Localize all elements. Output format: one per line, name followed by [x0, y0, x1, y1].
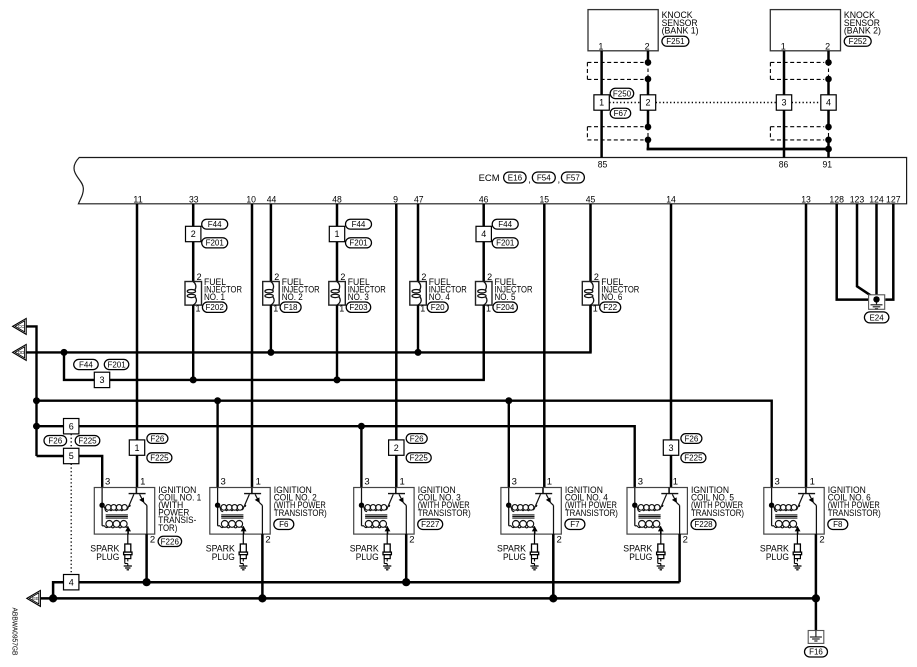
svg-text:2: 2	[340, 272, 345, 282]
svg-text:3: 3	[512, 477, 517, 488]
wire: knock sensor bank2 pin 2 (shield) to ECM pin 91	[827, 51, 830, 158]
junction: injector no.3 on supply row	[334, 376, 341, 383]
wire: row C to coil 4 pin 3	[508, 401, 510, 488]
svg-text:E16: E16	[508, 173, 523, 182]
label: ECM	[479, 173, 500, 184]
connector F44	[202, 219, 228, 229]
spark plug no.3	[383, 534, 391, 570]
wire: ignition coil no.5 pin 2 to ground bus	[678, 534, 681, 582]
ECM module box (torn left edge)	[74, 158, 907, 204]
connector pin square 5 (F26/F225)	[64, 448, 79, 463]
shield dashed segment	[828, 62, 830, 79]
wire: fuel injector no.6 return to supply row	[589, 305, 591, 352]
svg-text:TRANSISTOR): TRANSISTOR)	[828, 508, 881, 519]
svg-text:3: 3	[99, 375, 104, 385]
svg-text:PLUG: PLUG	[212, 552, 235, 563]
connector F67	[610, 108, 631, 118]
svg-text:3: 3	[105, 477, 110, 488]
svg-text:123: 123	[850, 194, 865, 205]
wire: ECM to ignition coil no.5 pin 1	[670, 204, 673, 488]
label: IGNITION COIL NO. 4 (WITH POWER TRANSISTOR)	[565, 485, 618, 519]
ECM pin 85 label	[598, 159, 608, 170]
svg-text:DD: DD	[18, 350, 25, 355]
connector F250	[610, 88, 634, 98]
connector F201	[492, 238, 518, 248]
junction: CC vertical to row D	[33, 423, 40, 430]
junction: coil 2 pin 3 on row C	[214, 397, 221, 404]
junction: coil no.1 pin 2 on bus	[143, 578, 151, 586]
svg-text:F203: F203	[349, 303, 368, 312]
wire: row B injector supply (to injectors 1,3,5)	[110, 305, 484, 380]
svg-text:4: 4	[69, 577, 74, 587]
wire: knock sensor bank1 pin 1 to ECM pin 85	[600, 51, 603, 158]
wire: ECM to ignition coil no.4 pin 1	[543, 204, 546, 488]
svg-text:2: 2	[594, 272, 599, 282]
ignition coil no.1 with power transistor (F226)	[94, 477, 155, 546]
junction: injector no.1 on supply row	[190, 376, 197, 383]
shield dashed segment	[647, 127, 649, 140]
label: FUEL INJECTOR NO. 1	[204, 277, 242, 303]
wire: row D to coil 3 pin 3	[360, 426, 362, 487]
dotted connector link 6-5-4	[70, 434, 72, 575]
ECM pin 127 label	[886, 194, 901, 205]
svg-text:TRANSISTOR): TRANSISTOR)	[565, 508, 618, 519]
spark plug no.2	[239, 534, 247, 570]
connector F57	[561, 172, 584, 183]
svg-text:1: 1	[140, 477, 145, 488]
connector pin square 1 (F44/F201)	[329, 226, 344, 241]
svg-text:F225: F225	[150, 454, 169, 463]
wire: fuel injector no.4 return to supply row	[417, 305, 419, 352]
svg-text:2: 2	[150, 534, 155, 545]
svg-text:F6: F6	[279, 520, 289, 529]
svg-text:F26: F26	[48, 437, 62, 446]
svg-text:2: 2	[191, 229, 196, 239]
wire: ECM to ignition coil no.6 pin 1	[805, 204, 808, 488]
svg-text:TRANSISTOR): TRANSISTOR)	[418, 508, 471, 519]
wire: ground bus drop to F16	[815, 598, 818, 630]
ECM pin 46 label	[479, 194, 489, 205]
comma	[528, 175, 531, 186]
junction: bus tie	[49, 594, 57, 602]
junction: coil no.3 pin 2 on bus	[402, 578, 410, 586]
junction: coil no.4 pin 2 on bus	[549, 594, 557, 602]
fuel injector no.6 (F22)	[582, 272, 599, 313]
svg-text:F26: F26	[410, 434, 424, 443]
svg-text:F22: F22	[603, 303, 617, 312]
svg-text:PLUG: PLUG	[356, 552, 379, 563]
comma	[558, 175, 561, 186]
fuel injector no.5 (F204)	[476, 272, 493, 313]
svg-text:PLUG: PLUG	[766, 552, 789, 563]
ground E24 symbol	[869, 295, 885, 310]
svg-text:3: 3	[364, 477, 369, 488]
svg-text:ECM: ECM	[479, 173, 500, 184]
ECM pin 14 label	[666, 194, 676, 205]
wire: ignition coil no.4 pin 2 to ground bus	[552, 534, 555, 598]
shield dashed segment	[647, 62, 649, 79]
svg-text:F26: F26	[151, 434, 165, 443]
svg-text:F44: F44	[352, 220, 366, 229]
svg-text:F201: F201	[206, 239, 225, 248]
ECM pin 13 label	[801, 194, 811, 205]
svg-text:F202: F202	[206, 303, 225, 312]
label: IGNITION COIL NO. 6 (WITH POWER TRANSISTOR)	[828, 485, 881, 519]
svg-text:(BANK 2): (BANK 2)	[844, 25, 881, 36]
ignition coil no.5 with power transistor (F228)	[627, 477, 688, 546]
ECM pin 124 label	[869, 194, 884, 205]
junction: coil 3 pin 3 on row D	[358, 423, 365, 430]
label: IGNITION COIL NO. 5 (WITH POWER TRANSISTOR)	[691, 485, 744, 519]
ECM pin 9 label	[393, 194, 398, 205]
svg-text:F44: F44	[498, 220, 512, 229]
wire: lower ground bus (EE to ground F16)	[41, 597, 816, 600]
wire: knock sensor bank2 pin 1 to ECM pin 86	[783, 51, 786, 158]
connector F26	[406, 434, 427, 444]
page connector arrow EE (ground bus)	[27, 590, 41, 606]
connector pin square 2 (F44/F201)	[186, 226, 201, 241]
svg-text:128: 128	[829, 194, 844, 205]
svg-text:1: 1	[486, 303, 491, 313]
connector F7	[565, 519, 585, 529]
junction: ground node E24	[873, 296, 879, 302]
svg-text:2: 2	[197, 272, 202, 282]
connector pin square 6 (F26/F225)	[64, 419, 79, 434]
wire: ECM to fuel injector no.4	[417, 204, 420, 282]
ECM pin 45 label	[586, 194, 596, 205]
label: FUEL INJECTOR NO. 3	[348, 277, 386, 303]
svg-text:F201: F201	[107, 360, 126, 369]
shield dashed box bank2 upper	[770, 62, 824, 79]
connector F226	[158, 536, 182, 546]
svg-text:F16: F16	[809, 648, 823, 657]
wire: row E coil supply (coil 1 pin 3)	[37, 456, 103, 488]
svg-text:CC: CC	[18, 324, 25, 329]
svg-text:F67: F67	[614, 109, 628, 118]
svg-text:127: 127	[886, 194, 901, 205]
connector pin square 1 (F26/F225)	[129, 440, 144, 455]
ECM pin 10 label	[246, 194, 256, 205]
svg-text:F201: F201	[349, 239, 368, 248]
ECM pin 48 label	[332, 194, 342, 205]
svg-text:F44: F44	[79, 360, 93, 369]
svg-text:33: 33	[189, 194, 199, 205]
label: FUEL INJECTOR NO. 5	[495, 277, 533, 303]
svg-text:1: 1	[339, 303, 344, 313]
svg-text:1: 1	[673, 477, 678, 488]
connector F202	[202, 302, 227, 312]
junction: injector no.4 on supply row	[415, 349, 422, 356]
svg-text:2: 2	[487, 272, 492, 282]
svg-text:F204: F204	[496, 303, 515, 312]
connector F44	[74, 359, 99, 369]
svg-text:F250: F250	[613, 89, 632, 98]
ECM pin 11 label	[133, 194, 143, 205]
svg-text:PLUG: PLUG	[96, 552, 119, 563]
svg-text:TOR): TOR)	[158, 523, 177, 534]
ECM pin 86 label	[779, 159, 789, 170]
connector pin square 3 (F250/F67)	[776, 95, 791, 110]
svg-text:,: ,	[558, 175, 561, 186]
wire: ignition coil no.2 pin 2 to ground bus	[261, 534, 264, 598]
svg-text:1: 1	[781, 42, 786, 52]
shield junction dots bank1	[645, 59, 652, 143]
shield dashed box bank2 lower	[770, 127, 824, 140]
wire: row C to coil 2 pin 3	[216, 401, 218, 488]
svg-text:F57: F57	[566, 173, 580, 182]
svg-text:F227: F227	[421, 520, 440, 529]
label: FUEL INJECTOR NO. 4	[429, 277, 467, 303]
svg-text:2: 2	[409, 534, 414, 545]
shield dashed segment	[828, 127, 830, 140]
svg-text:45: 45	[586, 194, 596, 205]
svg-text:1: 1	[134, 443, 139, 453]
shield dashed box bank1 lower	[587, 127, 643, 140]
svg-text:15: 15	[540, 194, 550, 205]
ground F16 symbol	[808, 631, 824, 644]
spark plug no.1	[124, 534, 132, 570]
wire: ECM to ignition coil no.2 pin 1	[251, 204, 254, 488]
svg-text:2: 2	[645, 98, 650, 108]
wire: upper ground bus (through connector square 4)	[53, 582, 680, 598]
connector pin square 4 (F44/F201)	[476, 226, 491, 241]
wire: ignition coil no.6 pin 2 to ground bus	[815, 534, 818, 598]
knock sensor (BANK 1) box	[588, 10, 658, 52]
connector F225	[75, 436, 100, 446]
connector pin square 4 (F250/F67)	[821, 95, 836, 110]
svg-text:48: 48	[332, 194, 342, 205]
svg-text:E24: E24	[869, 313, 884, 322]
svg-text:46: 46	[479, 194, 489, 205]
wire: ECM to fuel injector no.5	[482, 204, 485, 282]
connector F204	[493, 302, 518, 312]
label: SPARK PLUG	[760, 544, 790, 563]
svg-text:1: 1	[400, 477, 405, 488]
label: FUEL INJECTOR NO. 6	[601, 277, 639, 303]
junction: coil no.2 pin 2 on bus	[258, 594, 266, 602]
svg-text:2: 2	[394, 443, 399, 453]
connector F201	[346, 238, 372, 248]
fuel injector no.4 (F20)	[410, 272, 427, 313]
svg-text:11: 11	[133, 194, 143, 205]
label: SPARK PLUG	[350, 544, 380, 563]
svg-text:F8: F8	[833, 520, 843, 529]
svg-text:14: 14	[666, 194, 676, 205]
connector F228	[691, 519, 716, 529]
connector F203	[346, 302, 371, 312]
dotted connector link line	[609, 102, 821, 104]
svg-text:1: 1	[593, 303, 598, 313]
svg-text:TRANSISTOR): TRANSISTOR)	[274, 508, 327, 519]
ECM pin 91 label	[823, 159, 833, 170]
connector F225	[681, 453, 706, 463]
junction: coil 4 pin 3 on row C	[505, 397, 512, 404]
connector F26	[147, 434, 168, 444]
svg-text:3: 3	[775, 477, 780, 488]
spark plug no.6	[793, 534, 801, 570]
svg-text:91: 91	[823, 159, 833, 170]
shield dashed box bank1 upper	[587, 62, 643, 79]
wire: ECM pin 127 to ground E24	[885, 204, 893, 300]
svg-text:F251: F251	[666, 37, 685, 46]
junction: coil no.6 pin 2 on bus	[812, 594, 820, 602]
connector F225	[147, 453, 172, 463]
svg-text:F252: F252	[849, 37, 868, 46]
svg-text:,: ,	[528, 175, 531, 186]
knock sensor (BANK 2) box	[770, 10, 840, 52]
wire: ECM to fuel injector no.6	[589, 204, 592, 282]
junction: injector no.2 on supply row	[267, 349, 274, 356]
svg-text:1: 1	[599, 98, 604, 108]
connector E16	[504, 172, 526, 183]
connector F201	[104, 359, 129, 369]
svg-text:F225: F225	[410, 454, 429, 463]
connector pin square 4 (F26/F225)	[64, 575, 79, 590]
wire: branch row A to row B via connector 3	[64, 352, 94, 380]
svg-text:F44: F44	[208, 220, 222, 229]
wire: fuel injector no.1 return to supply row	[192, 305, 194, 380]
ECM pin 44 label	[267, 194, 277, 205]
wire: ignition coil no.1 pin 2 to ground bus	[145, 534, 148, 582]
connector pin square 2 (F26/F225)	[389, 440, 404, 455]
connector F225	[406, 453, 431, 463]
connector F26	[681, 434, 702, 444]
svg-text:F26: F26	[685, 434, 699, 443]
wire: arrow CC feed to coil supply rows	[26, 326, 36, 456]
svg-text:4: 4	[826, 98, 831, 108]
connector F8	[828, 519, 848, 529]
label: KNOCK SENSOR (BANK 1)	[662, 10, 699, 36]
svg-text:3: 3	[781, 98, 786, 108]
junction: shields common at pin 91	[825, 146, 832, 153]
wire: ECM pin 128 to ground E24	[837, 204, 868, 300]
connector F252	[844, 36, 871, 46]
ECM pin 128 label	[829, 194, 844, 205]
svg-text:6: 6	[69, 421, 74, 431]
svg-text:4: 4	[481, 229, 486, 239]
fuel injector no.3 (F203)	[329, 272, 346, 313]
svg-text:124: 124	[869, 194, 884, 205]
label: SPARK PLUG	[90, 544, 120, 563]
svg-text:2: 2	[819, 534, 824, 545]
svg-text:ABBWA0957GB: ABBWA0957GB	[10, 608, 19, 656]
fuel injector no.2 (F18)	[263, 272, 280, 313]
svg-text:PLUG: PLUG	[629, 552, 652, 563]
svg-text:1: 1	[810, 477, 815, 488]
svg-text:86: 86	[779, 159, 789, 170]
wire: ECM pin 123 to ground E24	[857, 204, 876, 299]
wire: fuel injector no.2 return to supply row	[270, 305, 272, 352]
spark plug no.4	[530, 534, 538, 570]
label: IGNITION COIL NO. 2 (WITH POWER TRANSISTOR)	[274, 485, 327, 519]
wire: ECM to ignition coil no.1 pin 1	[136, 204, 139, 488]
connector E24	[864, 312, 889, 323]
ignition coil no.3 with power transistor (F227)	[354, 477, 415, 546]
ignition coil no.2 with power transistor (F6)	[210, 477, 271, 546]
label: IGNITION COIL NO. 1 (WITH POWER TRANSISTOR)	[158, 485, 201, 534]
label: SPARK PLUG	[623, 544, 653, 563]
connector F227	[418, 519, 443, 529]
svg-text:(BANK 1): (BANK 1)	[662, 25, 699, 36]
svg-text:1: 1	[547, 477, 552, 488]
ignition coil no.6 with power transistor (F8)	[764, 477, 825, 546]
wire: ECM to ignition coil no.3 pin 1	[395, 204, 398, 488]
ECM pin 33 label	[189, 194, 199, 205]
svg-text:9: 9	[393, 194, 398, 205]
svg-text:2: 2	[265, 534, 270, 545]
connector pin square 2 (F250/F67)	[640, 95, 655, 110]
svg-text:5: 5	[69, 451, 74, 461]
svg-text:1: 1	[256, 477, 261, 488]
svg-text:1: 1	[334, 229, 339, 239]
ECM pin 123 label	[850, 194, 865, 205]
ECM pin 47 label	[414, 194, 424, 205]
label: SPARK PLUG	[206, 544, 236, 563]
svg-text:10: 10	[246, 194, 256, 205]
svg-text:F20: F20	[431, 303, 445, 312]
wire: ECM pin 124 to ground E24	[875, 204, 878, 300]
svg-text:1: 1	[420, 303, 425, 313]
wire: fuel injector no.5 return to supply row	[483, 305, 485, 380]
wire: ignition coil no.3 pin 2 to ground bus	[405, 534, 408, 582]
page connector arrow DD (injector power)	[13, 344, 27, 360]
fuel injector no.1 (F202)	[185, 272, 202, 313]
svg-text:PLUG: PLUG	[503, 552, 526, 563]
page connector arrow CC (coil power)	[13, 318, 27, 334]
svg-text:EE: EE	[32, 596, 39, 601]
connector F22	[600, 302, 621, 312]
svg-text:3: 3	[668, 443, 673, 453]
svg-text:TRANSISTOR): TRANSISTOR)	[691, 508, 744, 519]
label: IGNITION COIL NO. 3 (WITH POWER TRANSISTOR)	[418, 485, 471, 519]
wire: knock sensor bank1 pin 2 (shield)	[647, 51, 650, 150]
svg-text:F201: F201	[496, 239, 515, 248]
svg-text:13: 13	[801, 194, 811, 205]
svg-text:1: 1	[273, 303, 278, 313]
svg-text:47: 47	[414, 194, 424, 205]
svg-text:2: 2	[274, 272, 279, 282]
svg-text:F226: F226	[161, 537, 180, 546]
svg-text:F225: F225	[78, 437, 97, 446]
connector pin square 1 (F250/F67)	[594, 95, 609, 110]
svg-text:F18: F18	[284, 303, 298, 312]
wire: row A injector supply (DD to injectors 2,4,6)	[26, 305, 590, 352]
connector F54	[532, 172, 555, 183]
label: KNOCK SENSOR (BANK 2)	[844, 10, 881, 36]
connector F16	[805, 647, 828, 657]
svg-text:85: 85	[598, 159, 608, 170]
connector F6	[274, 519, 294, 529]
wire: ECM to fuel injector no.2	[270, 204, 273, 282]
wire: row D coil supply (coils 3,5 pin 3)	[37, 426, 635, 487]
connector pin square 3 (F26/F225)	[663, 440, 678, 455]
junction: CC vertical to row C	[33, 397, 40, 404]
wire: shield link bank1 to bank2 (to ECM pin 91)	[647, 149, 830, 150]
wire: ECM to fuel injector no.3	[336, 204, 339, 282]
connector F26	[44, 436, 67, 446]
spark plug no.5	[657, 534, 665, 570]
svg-text:F225: F225	[684, 454, 703, 463]
drawing code	[10, 608, 19, 656]
junction: row A branch to row B	[61, 349, 68, 356]
svg-text:F228: F228	[694, 520, 713, 529]
connector pin square 3 (F44/F201)	[94, 372, 109, 387]
connector F201	[202, 238, 228, 248]
svg-text:1: 1	[598, 42, 603, 52]
wire: ECM to fuel injector no.1	[192, 204, 195, 282]
svg-text:2: 2	[557, 534, 562, 545]
wire: fuel injector no.3 return to supply row	[336, 305, 338, 380]
